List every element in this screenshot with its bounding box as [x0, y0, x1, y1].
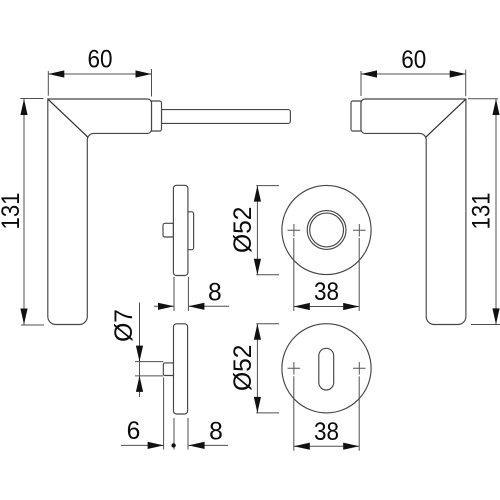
- svg-text:60: 60: [401, 47, 426, 74]
- svg-text:38: 38: [314, 419, 339, 446]
- svg-text:Ø52: Ø52: [230, 207, 257, 254]
- svg-text:Ø52: Ø52: [230, 345, 257, 392]
- svg-text:131: 131: [0, 193, 25, 230]
- svg-text:8: 8: [208, 280, 222, 307]
- svg-text:8: 8: [209, 418, 223, 445]
- svg-text:38: 38: [314, 279, 339, 306]
- svg-text:131: 131: [468, 193, 495, 230]
- svg-text:60: 60: [88, 47, 113, 74]
- svg-text:6: 6: [127, 418, 141, 445]
- svg-text:Ø7: Ø7: [111, 309, 138, 342]
